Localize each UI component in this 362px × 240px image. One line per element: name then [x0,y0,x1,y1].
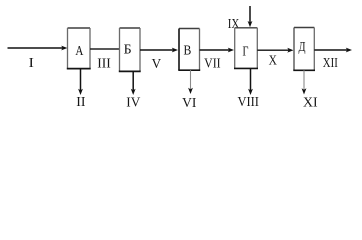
wire input arrow into block A [8,46,68,51]
block B box [119,28,141,71]
svg-text:V: V [152,56,162,71]
block D box [293,28,315,71]
wire D output arrow [314,48,352,53]
svg-text:А: А [75,43,83,58]
svg-text:XI: XI [303,95,318,110]
wire down arrow from V to VI [188,70,193,94]
svg-text:VII: VII [204,56,221,71]
wire down arrow from D to XI [302,70,307,94]
wire down arrow from G to VIII [248,68,253,95]
svg-text:Б: Б [124,42,132,57]
svg-text:Д: Д [299,39,306,54]
block V box [178,29,200,71]
svg-text:IX: IX [228,16,240,31]
svg-text:XII: XII [323,55,338,70]
svg-text:Г: Г [243,43,249,58]
wire A to B [90,48,120,50]
wire IX arrow down into block G [248,6,253,27]
wire V to G arrow [200,48,235,53]
block G box [234,28,258,69]
svg-text:III: III [97,56,111,71]
svg-text:VIII: VIII [237,94,259,109]
svg-text:I: I [29,55,34,70]
svg-text:IV: IV [126,95,140,110]
block A box [67,28,91,69]
svg-text:X: X [269,53,278,68]
wire G to D arrow [257,48,293,53]
svg-text:II: II [76,94,85,109]
wire B to V arrow [140,48,178,53]
svg-text:В: В [184,43,192,58]
wire down arrow from B to IV [131,71,136,95]
svg-text:VI: VI [182,95,196,110]
wire down arrow from A to II [78,69,83,95]
